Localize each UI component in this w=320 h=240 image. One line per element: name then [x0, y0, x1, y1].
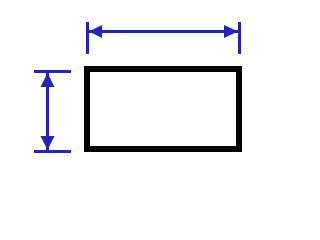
height dimension: down arrowhead — [41, 136, 55, 150]
height dimension: top extension tick — [34, 70, 71, 73]
width dimension: right arrowhead — [224, 25, 238, 38]
width dimension: right extension tick — [238, 22, 241, 54]
width dimension: left extension tick — [86, 22, 89, 54]
width dimension: shaft — [89, 30, 238, 33]
height dimension: shaft — [46, 73, 49, 150]
height dimension: up arrowhead — [41, 73, 55, 87]
height dimension: bottom extension tick — [34, 150, 71, 153]
width dimension: left arrowhead — [89, 25, 102, 38]
rectangle body (dimensioned part) — [87, 69, 239, 149]
